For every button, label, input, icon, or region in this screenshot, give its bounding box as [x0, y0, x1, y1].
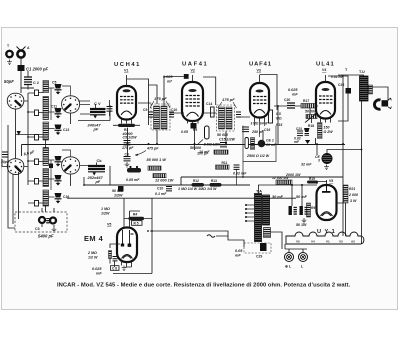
wire transformer to lamps: [270, 232, 282, 249]
wire coil links: [49, 86, 91, 197]
svg-text:C23: C23: [296, 127, 302, 131]
svg-text:C5 1/2W: C5 1/2W: [123, 136, 138, 140]
svg-text:0.05: 0.05: [235, 249, 243, 253]
svg-text:0.025: 0.025: [288, 88, 298, 92]
svg-text:2000 1W: 2000 1W: [285, 173, 301, 177]
svg-text:V5: V5: [107, 223, 111, 227]
capacitor C21: [294, 127, 310, 144]
svg-text:⊕ L: ⊕ L: [285, 265, 292, 269]
svg-text:A2: A2: [351, 240, 355, 244]
svg-text:V5: V5: [329, 179, 333, 183]
svg-text:C10: C10: [171, 108, 177, 112]
resistor R21: [344, 185, 359, 203]
mid resistor 85000: [147, 158, 174, 183]
svg-text:C V: C V: [94, 101, 101, 106]
capacitor C29: [235, 243, 271, 259]
capacitor fixed black: [49, 164, 53, 169]
svg-text:1/2W: 1/2W: [114, 194, 123, 198]
capacitor C12 padder: [55, 156, 62, 166]
capacitor 30pF: [1, 152, 10, 164]
resistor R6v: [296, 203, 315, 227]
svg-text:R 5: R 5: [134, 222, 139, 226]
resistor R19 livellazione: [285, 173, 318, 184]
tube V4 UL41: [316, 62, 345, 123]
antenna terminal A: [17, 46, 31, 58]
wire switch column: [24, 93, 44, 204]
svg-text:R9: R9: [193, 128, 197, 132]
svg-text:150: 150: [324, 126, 330, 130]
wires EM4: [110, 198, 152, 273]
tube V6 EM4: [84, 223, 137, 263]
svg-text:mf: mf: [167, 80, 172, 84]
svg-text:3: 3: [318, 159, 320, 163]
tube V1 UCH41: [114, 62, 149, 125]
svg-text:R19: R19: [309, 177, 315, 181]
coil can L4: [62, 157, 80, 174]
svg-text:UL41: UL41: [316, 62, 335, 68]
svg-text:Ck: Ck: [97, 158, 103, 163]
svg-text:50 1W: 50 1W: [296, 223, 307, 227]
svg-text:C6: C6: [125, 153, 129, 157]
svg-text:MΩ: MΩ: [276, 117, 282, 121]
svg-text:175 pF: 175 pF: [154, 96, 167, 101]
svg-text:UAF41: UAF41: [182, 62, 208, 68]
electrolytic CE3: [301, 150, 362, 170]
wire V3 cluster box: [243, 126, 276, 162]
svg-text:3 W: 3 W: [350, 199, 357, 203]
svg-text:C20: C20: [284, 98, 290, 102]
band switch contacts S1: [35, 90, 39, 206]
svg-text:0.02 mF: 0.02 mF: [233, 172, 247, 176]
svg-text:175 pF: 175 pF: [122, 146, 134, 150]
wire C1 to coil: [21, 71, 34, 93]
coil L10: [43, 190, 49, 206]
svg-text:R15: R15: [276, 123, 282, 127]
svg-text:V4: V4: [311, 240, 315, 244]
svg-text:pF: pF: [93, 127, 99, 132]
cluster under V2: [181, 123, 209, 156]
capacitor C13 padder: [55, 125, 70, 135]
svg-text:10 mF: 10 mF: [199, 150, 210, 154]
svg-text:R12: R12: [193, 179, 199, 183]
svg-text:C16: C16: [63, 195, 69, 199]
svg-text:C16: C16: [264, 128, 270, 132]
svg-text:V1: V1: [326, 240, 330, 244]
svg-text:R4: R4: [133, 213, 137, 217]
wires V1..V4 interconnect: [78, 77, 318, 156]
svg-text:C9: C9: [143, 108, 147, 112]
svg-text:R11: R11: [222, 161, 228, 165]
capacitor C2: [4, 71, 39, 90]
cluster R11: [216, 161, 248, 185]
svg-text:mF: mF: [96, 272, 102, 276]
svg-text:C14: C14: [206, 102, 212, 106]
svg-text:250 pF: 250 pF: [251, 130, 264, 134]
capacitor C20 and R17: [284, 88, 316, 114]
svg-text:5 MΩ 1/2W: 5 MΩ 1/2W: [204, 143, 221, 147]
svg-text:0.05: 0.05: [181, 130, 189, 134]
power transformer TA: [245, 189, 271, 242]
capacitor C5 padder: [52, 81, 62, 95]
svg-text:0.1 mF: 0.1 mF: [155, 192, 167, 196]
filament strip UY1: [286, 229, 364, 244]
svg-text:1/2 W: 1/2 W: [88, 256, 98, 260]
svg-text:0.05 mF: 0.05 mF: [126, 178, 140, 182]
svg-text:C13: C13: [63, 128, 69, 132]
dial lamps: [285, 244, 308, 269]
svg-text:50pF: 50pF: [4, 79, 14, 84]
svg-text:CE 1: CE 1: [266, 139, 274, 143]
wires power section: [259, 180, 346, 236]
svg-text:2500 Ω 1/2 W: 2500 Ω 1/2 W: [246, 154, 270, 158]
coil L9: [43, 169, 49, 187]
svg-text:C11: C11: [51, 105, 57, 109]
mains input: [150, 231, 244, 247]
volume pot R18: [305, 113, 317, 128]
svg-text:C 6: C 6: [112, 267, 117, 271]
svg-text:0.025: 0.025: [92, 267, 102, 271]
svg-text:C5: C5: [52, 81, 56, 85]
capacitor C10b: [155, 187, 172, 197]
label 50000 C15: [217, 133, 236, 147]
resistor R2: [113, 124, 140, 127]
coil can L2: [62, 96, 80, 113]
coil can L3: [7, 159, 24, 175]
svg-text:EM 4: EM 4: [84, 234, 104, 243]
svg-text:V3: V3: [339, 240, 343, 244]
electrolytic C27: [272, 195, 297, 215]
resistor R4: [101, 207, 152, 220]
variable capacitor CK: [84, 158, 110, 185]
svg-text:1/2W: 1/2W: [101, 212, 110, 216]
capacitor C6a: [124, 153, 131, 168]
svg-text:R18: R18: [308, 124, 314, 128]
capacitor C15 padder: [55, 175, 62, 185]
IF transformer MF1: [143, 96, 177, 130]
svg-text:Ω 2W: Ω 2W: [323, 130, 334, 134]
output transformer TU: [359, 70, 373, 101]
wire antenna down: [20, 58, 22, 65]
svg-text:C1 2000 pF: C1 2000 pF: [26, 67, 49, 72]
wire: AVC bus: [84, 177, 343, 185]
svg-text:R17: R17: [303, 99, 309, 103]
wire MF1 to V2 grid: [164, 77, 184, 107]
wire left verticals: [2, 109, 71, 228]
coil L5: [43, 81, 49, 93]
svg-text:5400 pF: 5400 pF: [38, 234, 54, 239]
coil L8: [43, 148, 49, 166]
capacitor C25: [338, 83, 351, 94]
resistor R5 boxed: [132, 221, 143, 226]
svg-text:mF: mF: [235, 254, 241, 258]
svg-text:UAF41: UAF41: [249, 62, 272, 68]
variable capacitor CV: [78, 101, 110, 132]
label 475pF with arrow: [135, 147, 159, 157]
svg-text:1 MΩ 1/4 W 1MΩ 1/4 W: 1 MΩ 1/4 W 1MΩ 1/4 W: [178, 187, 217, 191]
resistor R5: [126, 166, 141, 182]
svg-text:V4: V4: [322, 68, 326, 72]
svg-text:1 MΩ: 1 MΩ: [101, 207, 110, 211]
svg-text:V5: V5: [296, 240, 300, 244]
label 50000: [112, 189, 123, 198]
svg-text:C10: C10: [157, 187, 163, 191]
labels EM4 left: [87, 251, 126, 276]
capacitor C16 padder: [55, 193, 70, 203]
svg-text:3 MΩ 1/4 W: 3 MΩ 1/4 W: [251, 122, 269, 126]
capacitor C1: [18, 65, 49, 72]
svg-text:32 mF: 32 mF: [301, 163, 312, 167]
capacitor C8b left of V1: [107, 100, 113, 116]
svg-text:2 000: 2 000: [348, 193, 358, 197]
svg-text:0.025: 0.025: [163, 75, 173, 79]
wire: lower bus: [67, 177, 296, 198]
IF transformer MF2: [206, 97, 241, 131]
bus resistors R12 R13: [178, 179, 222, 191]
resistor R16: [272, 176, 292, 185]
svg-text:10 mF: 10 mF: [266, 143, 277, 147]
svg-text:2 MΩ: 2 MΩ: [87, 251, 97, 255]
svg-text:INCAR - Mod. VZ 545 - Medie e: INCAR - Mod. VZ 545 - Medie e due corte.…: [57, 283, 351, 289]
svg-text:pF: pF: [95, 179, 101, 184]
svg-text:R21: R21: [349, 187, 355, 191]
electrolytic C28: [296, 195, 308, 215]
svg-text:C15 1/2W: C15 1/2W: [219, 137, 236, 141]
svg-text:R6: R6: [311, 206, 315, 210]
capacitor C11 padder: [51, 105, 62, 119]
svg-text:30 mF: 30 mF: [272, 195, 284, 199]
coil L6: [43, 97, 49, 120]
ground terminal T: [6, 44, 12, 65]
capacitor C7a: [122, 141, 134, 151]
svg-text:T.U: T.U: [359, 70, 365, 74]
wire: HT bus: [22, 145, 346, 157]
svg-text:V1: V1: [124, 69, 128, 73]
detector column right of V3: [264, 110, 282, 132]
cluster under V3: [242, 127, 277, 158]
svg-text:12 000 1W: 12 000 1W: [155, 179, 174, 183]
tube V2 UAF41: [182, 62, 208, 124]
cluster 100uF: [199, 150, 228, 154]
svg-text:R13: R13: [211, 179, 217, 183]
svg-text:C 2: C 2: [33, 81, 39, 85]
coil can L1: [7, 93, 24, 109]
wires right top: [328, 75, 388, 244]
tube V5 UY41: [317, 179, 337, 220]
svg-text:175 pF: 175 pF: [222, 97, 235, 102]
labels under V1: [122, 128, 138, 140]
coil L7: [43, 122, 49, 140]
resistor R20: [318, 123, 334, 139]
svg-text:50 000: 50 000: [305, 110, 316, 114]
svg-text:T.A: T.A: [256, 189, 262, 194]
speaker: [374, 98, 391, 109]
svg-text:mF: mF: [292, 93, 298, 97]
svg-text:V2: V2: [191, 68, 195, 72]
tuning gang C3: [15, 208, 67, 239]
svg-text:V3: V3: [257, 68, 261, 72]
capacitor C8: [118, 186, 124, 192]
tube V3 UAF41: [249, 62, 277, 122]
svg-text:C29: C29: [256, 255, 262, 259]
svg-text:85 000 1 W: 85 000 1 W: [147, 158, 167, 162]
svg-text:C3: C3: [35, 227, 40, 231]
svg-text:475 pF: 475 pF: [146, 147, 159, 151]
svg-text:UCH41: UCH41: [114, 62, 141, 68]
